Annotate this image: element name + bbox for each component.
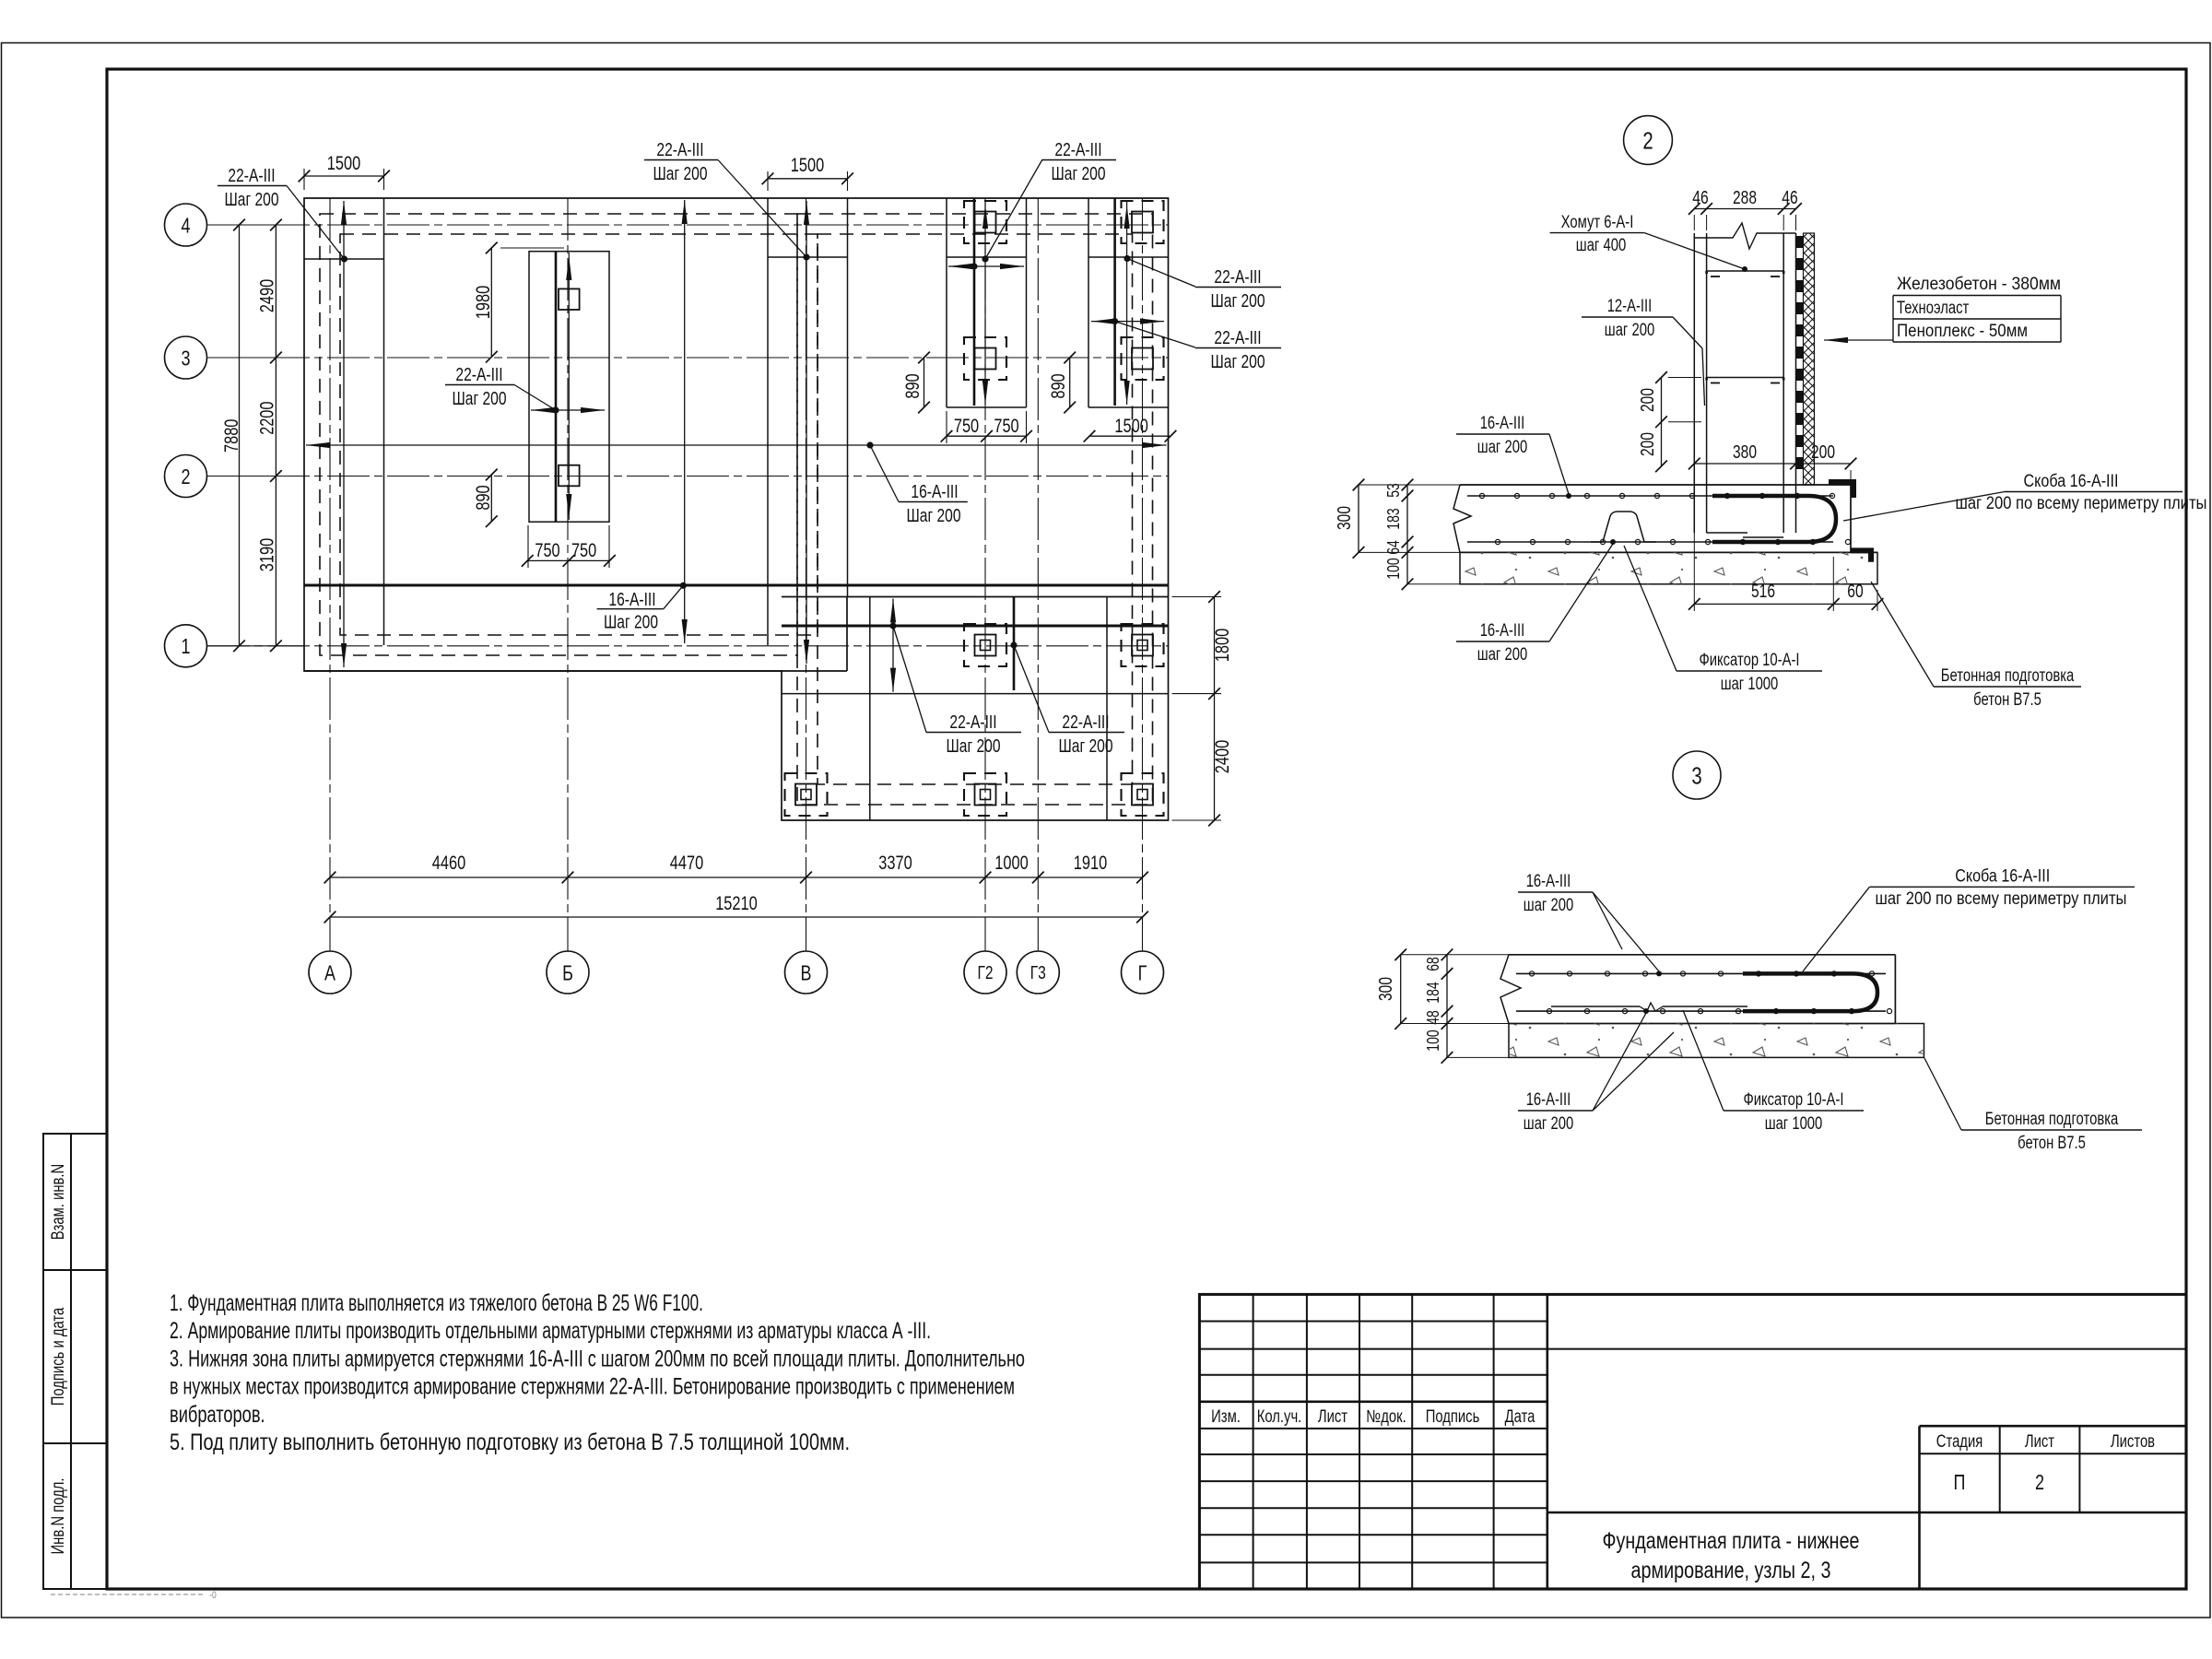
svg-text:Листов: Листов	[2111, 1432, 2155, 1452]
svg-text:380: 380	[1733, 442, 1757, 463]
svg-text:22-А-III: 22-А-III	[1054, 140, 1101, 160]
svg-text:бетон В7.5: бетон В7.5	[1973, 690, 2041, 710]
svg-text:бетон В7.5: бетон В7.5	[2018, 1134, 2086, 1153]
svg-text:1000: 1000	[994, 853, 1028, 874]
svg-text:53: 53	[1384, 483, 1403, 498]
svg-text:Шаг 200: Шаг 200	[1211, 352, 1265, 372]
svg-text:288: 288	[1733, 188, 1757, 208]
svg-text:№док.: №док.	[1366, 1407, 1406, 1427]
svg-text:Фундаментная плита - нижнее: Фундаментная плита - нижнее	[1603, 1528, 1860, 1554]
svg-text:А: А	[324, 960, 336, 984]
svg-text:100: 100	[1384, 558, 1403, 579]
svg-text:3. Нижняя зона плиты армируетс: 3. Нижняя зона плиты армируется стержням…	[170, 1346, 1025, 1371]
svg-text:шаг 400: шаг 400	[1576, 236, 1626, 255]
svg-text:Шаг 200: Шаг 200	[947, 736, 1001, 757]
svg-text:3: 3	[182, 346, 191, 370]
svg-text:Шаг 200: Шаг 200	[653, 164, 708, 184]
svg-text:22-А-III: 22-А-III	[656, 140, 703, 160]
svg-text:22-А-III: 22-А-III	[1062, 712, 1109, 733]
svg-text:П: П	[1954, 1470, 1966, 1494]
svg-text:2200: 2200	[257, 402, 278, 435]
svg-text:Пеноплекс - 50мм: Пеноплекс - 50мм	[1897, 322, 2028, 341]
svg-text:15210: 15210	[715, 893, 758, 914]
svg-text:200: 200	[1811, 442, 1835, 463]
svg-text:Г3: Г3	[1030, 963, 1046, 983]
svg-text:22-А-III: 22-А-III	[1214, 328, 1261, 348]
svg-text:1500: 1500	[791, 155, 824, 176]
svg-text:Б: Б	[562, 960, 573, 984]
svg-text:890: 890	[473, 485, 494, 510]
svg-text:Кол.уч.: Кол.уч.	[1257, 1407, 1302, 1427]
svg-text:Взам. инв.N: Взам. инв.N	[49, 1164, 68, 1241]
svg-text:516: 516	[1751, 582, 1775, 602]
svg-text:3190: 3190	[257, 538, 278, 571]
svg-text:16-А-III: 16-А-III	[1526, 872, 1571, 891]
svg-text:300: 300	[1335, 506, 1355, 530]
svg-text:Шаг 200: Шаг 200	[453, 389, 507, 409]
svg-text:16-А-III: 16-А-III	[911, 482, 958, 502]
svg-text:183: 183	[1384, 508, 1403, 529]
svg-text:Фиксатор 10-А-I: Фиксатор 10-А-I	[1699, 651, 1799, 670]
svg-text:Шаг 200: Шаг 200	[907, 506, 961, 526]
svg-text:шаг 1000: шаг 1000	[1765, 1114, 1823, 1134]
svg-text:1500: 1500	[327, 153, 360, 174]
svg-text:5. Под плиту выполнить бетонну: 5. Под плиту выполнить бетонную подготов…	[170, 1430, 850, 1455]
svg-text:шаг 200: шаг 200	[1477, 645, 1527, 665]
svg-text:2400: 2400	[1212, 740, 1233, 773]
svg-text:шаг 200 по всему периметру пли: шаг 200 по всему периметру плиты	[1876, 889, 2127, 909]
svg-text:2: 2	[182, 465, 191, 488]
svg-text:200: 200	[1638, 388, 1658, 412]
svg-text:1. Фундаментная плита выполняе: 1. Фундаментная плита выполняется из тяж…	[170, 1290, 703, 1316]
svg-text:7880: 7880	[221, 419, 242, 453]
svg-text:в нужных местах производится а: в нужных местах производится армирование…	[170, 1374, 1015, 1400]
svg-text:200: 200	[1638, 432, 1658, 456]
svg-text:16-А-III: 16-А-III	[608, 590, 655, 610]
svg-text:Шаг 200: Шаг 200	[1059, 736, 1113, 757]
svg-text:-0: -0	[209, 1590, 217, 1601]
svg-text:1: 1	[182, 634, 191, 658]
svg-text:1800: 1800	[1212, 629, 1233, 662]
svg-text:22-А-III: 22-А-III	[1214, 267, 1261, 288]
svg-text:46: 46	[1692, 188, 1708, 208]
svg-text:750: 750	[571, 540, 596, 561]
svg-text:Бетонная подготовка: Бетонная подготовка	[1941, 666, 2075, 686]
svg-text:300: 300	[1376, 977, 1396, 1001]
svg-text:Лист: Лист	[2025, 1432, 2054, 1452]
svg-text:Фиксатор 10-А-I: Фиксатор 10-А-I	[1743, 1090, 1843, 1110]
svg-text:шаг 200: шаг 200	[1524, 1114, 1573, 1134]
svg-text:вибраторов.: вибраторов.	[170, 1402, 265, 1428]
svg-text:Шаг 200: Шаг 200	[604, 613, 658, 633]
svg-text:1980: 1980	[473, 286, 494, 319]
svg-text:22-А-III: 22-А-III	[455, 365, 502, 385]
svg-text:Хомут 6-А-I: Хомут 6-А-I	[1561, 213, 1634, 232]
svg-text:Подпись: Подпись	[1426, 1407, 1480, 1427]
svg-text:Шаг 200: Шаг 200	[1211, 291, 1265, 312]
svg-text:Дата: Дата	[1505, 1407, 1535, 1427]
svg-text:12-А-III: 12-А-III	[1607, 297, 1653, 316]
svg-text:3370: 3370	[878, 853, 912, 874]
svg-text:шаг 200: шаг 200	[1477, 438, 1527, 457]
svg-text:750: 750	[954, 416, 979, 437]
svg-text:2: 2	[1642, 126, 1653, 154]
svg-text:шаг 200: шаг 200	[1605, 321, 1654, 340]
svg-text:16-А-III: 16-А-III	[1526, 1090, 1571, 1110]
svg-text:Шаг 200: Шаг 200	[1052, 164, 1106, 184]
svg-text:16-А-III: 16-А-III	[1480, 414, 1525, 433]
svg-text:16-А-III: 16-А-III	[1480, 621, 1525, 641]
svg-text:1910: 1910	[1074, 853, 1107, 874]
svg-text:Техноэласт: Техноэласт	[1897, 299, 1970, 318]
svg-text:2. Армирование плиты производи: 2. Армирование плиты производить отдельн…	[170, 1318, 931, 1344]
svg-text:184: 184	[1424, 982, 1442, 1003]
svg-text:4: 4	[182, 213, 191, 237]
svg-text:В: В	[801, 960, 812, 984]
svg-text:Подпись и дата: Подпись и дата	[49, 1307, 68, 1406]
svg-text:22-А-III: 22-А-III	[949, 712, 996, 733]
svg-text:3: 3	[1691, 761, 1701, 789]
svg-text:890: 890	[1048, 373, 1069, 398]
svg-text:60: 60	[1847, 582, 1863, 602]
svg-text:100: 100	[1424, 1030, 1442, 1051]
svg-text:Скоба 16-А-III: Скоба 16-А-III	[2024, 472, 2119, 491]
svg-text:Г2: Г2	[977, 963, 993, 983]
svg-text:46: 46	[1782, 188, 1797, 208]
svg-text:шаг 200 по всему периметру пли: шаг 200 по всему периметру плиты	[1956, 494, 2207, 513]
svg-text:68: 68	[1424, 957, 1442, 971]
svg-text:48: 48	[1424, 1010, 1442, 1025]
svg-text:Шаг 200: Шаг 200	[225, 190, 279, 210]
svg-text:Скоба 16-А-III: Скоба 16-А-III	[1955, 867, 2050, 887]
svg-text:4460: 4460	[432, 853, 465, 874]
svg-text:Стадия: Стадия	[1936, 1432, 1983, 1452]
svg-text:армирование, узлы 2, 3: армирование, узлы 2, 3	[1631, 1558, 1831, 1583]
svg-text:1500: 1500	[1114, 416, 1147, 437]
svg-text:750: 750	[535, 540, 559, 561]
svg-text:шаг 1000: шаг 1000	[1721, 675, 1779, 694]
svg-text:Железобетон - 380мм: Железобетон - 380мм	[1897, 275, 2061, 294]
svg-text:Изм.: Изм.	[1211, 1407, 1241, 1427]
svg-text:750: 750	[994, 416, 1018, 437]
svg-text:890: 890	[902, 373, 924, 398]
svg-text:Бетонная подготовка: Бетонная подготовка	[1985, 1110, 2119, 1129]
svg-text:4470: 4470	[670, 853, 703, 874]
svg-text:Инв.N подл.: Инв.N подл.	[49, 1478, 68, 1555]
svg-text:2490: 2490	[257, 279, 278, 312]
svg-text:22-А-III: 22-А-III	[228, 166, 275, 186]
svg-text:Лист: Лист	[1318, 1407, 1347, 1427]
svg-text:шаг 200: шаг 200	[1524, 896, 1573, 915]
svg-text:2: 2	[2035, 1470, 2044, 1494]
svg-text:Г: Г	[1138, 960, 1147, 984]
